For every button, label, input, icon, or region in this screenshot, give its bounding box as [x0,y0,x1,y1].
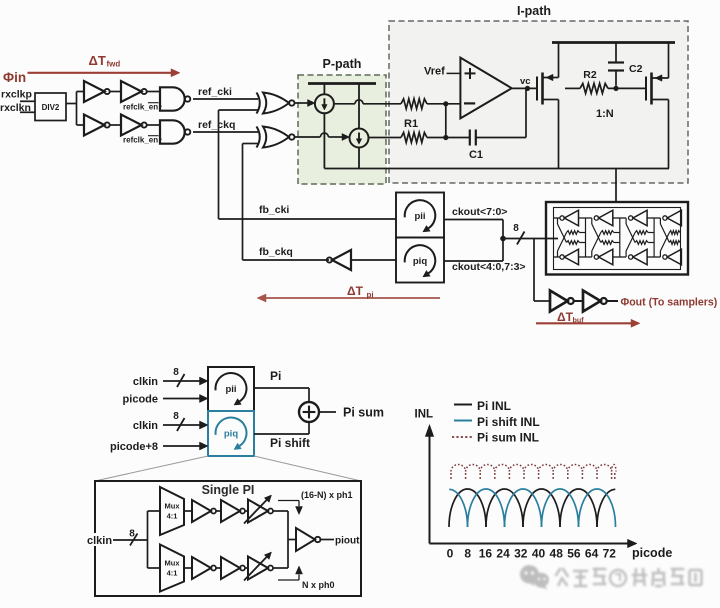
svg-text:56: 56 [567,547,581,561]
svg-text:piq: piq [224,429,238,440]
svg-text:I-path: I-path [517,4,551,18]
svg-text:N x ph0: N x ph0 [302,580,335,590]
svg-text:Pi: Pi [270,369,281,383]
svg-text:pi: pi [367,291,374,300]
svg-text:Φin: Φin [3,70,26,85]
svg-text:Pi shift: Pi shift [270,436,310,450]
svg-text:4:1: 4:1 [167,569,178,578]
svg-text:ckout<4:0,7:3>: ckout<4:0,7:3> [452,261,526,273]
svg-text:8: 8 [173,367,179,378]
svg-text:C1: C1 [469,149,483,161]
svg-text:fwd: fwd [107,60,121,69]
svg-text:clkin: clkin [133,420,158,432]
svg-text:Vref: Vref [424,66,445,78]
svg-text:piq: piq [413,256,427,267]
svg-text:Mux: Mux [165,559,181,568]
svg-text:ckout<7:0>: ckout<7:0> [452,206,507,218]
svg-text:picode+8: picode+8 [110,441,158,453]
svg-text:clkin: clkin [87,535,112,547]
svg-text:ref_cki: ref_cki [198,86,232,98]
svg-text:pii: pii [414,211,425,222]
svg-text:(16-N) x ph1: (16-N) x ph1 [301,490,353,500]
svg-text:64: 64 [585,547,599,561]
svg-text:ref_ckq: ref_ckq [198,119,235,131]
svg-text:ΔT: ΔT [89,53,106,68]
svg-text:0: 0 [447,547,454,561]
svg-text:ΔT: ΔT [557,310,574,324]
svg-text:clkin: clkin [133,376,158,388]
svg-text:Pi INL: Pi INL [477,399,511,413]
svg-text:ΔT: ΔT [347,284,364,298]
svg-text:refclk_en: refclk_en [123,103,158,112]
svg-text:DIV2: DIV2 [42,103,60,112]
svg-text:R2: R2 [583,69,597,81]
svg-text:Mux: Mux [165,502,181,511]
svg-text:40: 40 [532,547,546,561]
svg-text:vc: vc [520,76,531,87]
svg-text:4:1: 4:1 [167,512,178,521]
svg-text:Φout (To samplers): Φout (To samplers) [621,296,718,308]
svg-text:Single PI: Single PI [202,483,255,497]
svg-text:16: 16 [479,547,493,561]
svg-text:8: 8 [513,223,519,234]
svg-text:rxclkp: rxclkp [1,89,32,101]
svg-text:refclk_en: refclk_en [123,136,158,145]
svg-text:P-path: P-path [323,57,362,71]
svg-text:24: 24 [496,547,510,561]
svg-text:Pi sum: Pi sum [343,406,384,420]
svg-text:piout: piout [335,536,360,547]
svg-text:Pi shift INL: Pi shift INL [477,415,540,429]
svg-text:48: 48 [550,547,564,561]
svg-text:INL: INL [415,409,434,421]
svg-text:8: 8 [129,529,135,540]
svg-text:1:N: 1:N [596,108,614,120]
svg-text:fb_cki: fb_cki [259,204,289,216]
svg-text:72: 72 [603,547,617,561]
svg-text:picode: picode [123,393,158,405]
svg-text:C2: C2 [629,63,643,75]
svg-text:8: 8 [464,547,471,561]
svg-text:32: 32 [514,547,528,561]
svg-text:R1: R1 [404,118,418,130]
svg-text:Pi sum INL: Pi sum INL [477,431,539,445]
svg-text:picode: picode [632,546,672,560]
svg-text:8: 8 [173,411,179,422]
svg-text:fb_ckq: fb_ckq [259,246,293,258]
svg-text:pii: pii [225,384,236,395]
